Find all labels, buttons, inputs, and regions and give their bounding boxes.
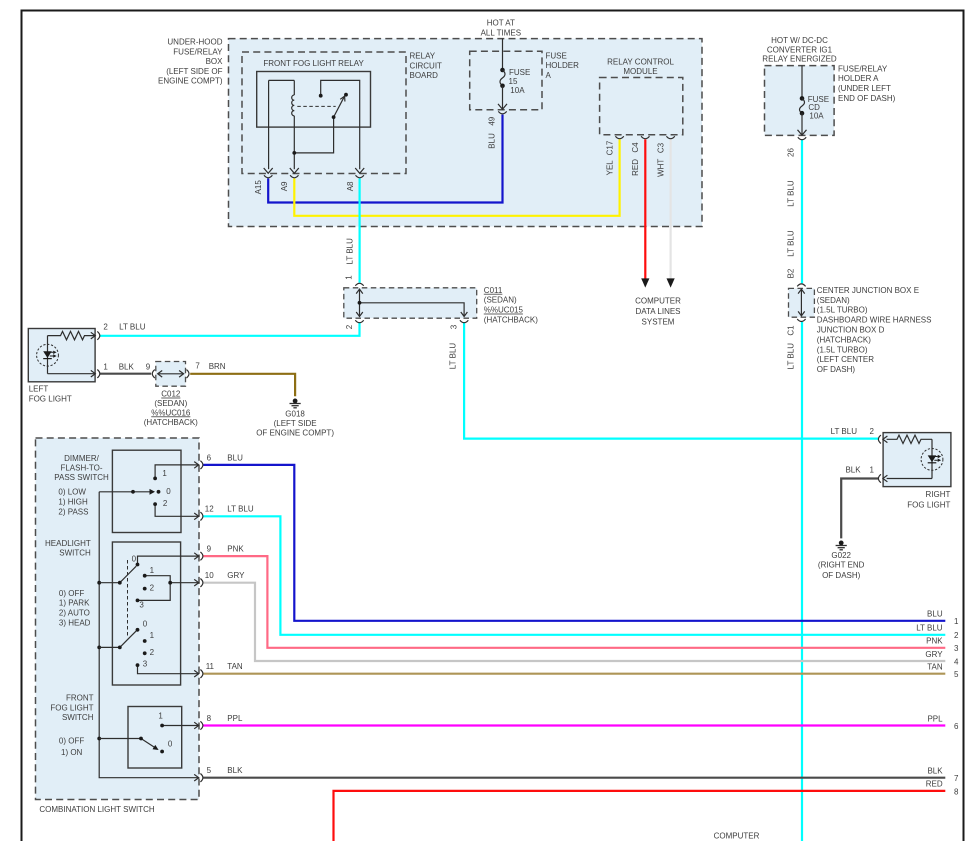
switch pin 12 arrow and cup <box>194 512 203 520</box>
svg-text:(UNDER LEFT: (UNDER LEFT <box>838 84 891 93</box>
relay pin A9 arrow and cup <box>290 168 299 178</box>
svg-text:(1.5L TURBO): (1.5L TURBO) <box>817 345 868 354</box>
svg-text:(LEFT CENTER: (LEFT CENTER <box>817 355 874 364</box>
svg-text:(SEDAN): (SEDAN) <box>154 399 187 408</box>
svg-text:HOLDER: HOLDER <box>546 61 580 70</box>
bus junction node headlight 1 <box>97 581 101 585</box>
label COMBINATION LIGHT SWITCH <box>39 805 154 814</box>
label headlight section 2 contact numbers <box>143 619 155 668</box>
fog switch pivot node <box>139 737 143 741</box>
svg-text:PPL: PPL <box>227 714 243 723</box>
svg-text:7: 7 <box>954 774 959 783</box>
headlight section 1 output junction node <box>168 581 172 585</box>
wire PPL switch pin 8 to right edge circuit 6 <box>203 724 945 726</box>
svg-text:C011: C011 <box>484 286 503 295</box>
label pins A15 A9 A8 <box>254 180 355 195</box>
svg-text:CONVERTER IG1: CONVERTER IG1 <box>767 45 833 54</box>
svg-text:1: 1 <box>158 711 163 720</box>
label COMPUTER (bottom, cut off) <box>714 832 760 841</box>
label headlight section 1 contact numbers <box>132 555 155 610</box>
svg-text:B2: B2 <box>787 268 796 278</box>
dimmer blade arrowhead <box>150 489 156 495</box>
svg-text:3: 3 <box>139 601 144 610</box>
label FUSE 15 10A <box>509 68 531 95</box>
switch pin 6 arrow and cup <box>194 461 203 469</box>
svg-text:(LEFT SIDE: (LEFT SIDE <box>274 419 317 428</box>
svg-text:FUSE: FUSE <box>546 51 567 60</box>
label right edge circuit 7 BLK <box>927 767 959 784</box>
label COMPUTER DATA LINES SYSTEM <box>635 297 681 327</box>
svg-text:PASS SWITCH: PASS SWITCH <box>54 473 109 482</box>
svg-text:G022: G022 <box>831 551 851 560</box>
label RELAY CIRCUIT BOARD <box>410 52 443 81</box>
svg-text:3: 3 <box>954 644 959 653</box>
svg-text:BOX: BOX <box>206 57 224 66</box>
wire BLU switch pin 6 to right edge circuit 1 <box>203 465 945 621</box>
svg-text:LT BLU: LT BLU <box>119 322 146 331</box>
label FUSE HOLDER A <box>546 51 580 80</box>
svg-text:2: 2 <box>870 427 875 436</box>
svg-text:5: 5 <box>954 670 959 679</box>
svg-text:COMPUTER: COMPUTER <box>635 297 681 306</box>
svg-text:YEL: YEL <box>605 160 614 176</box>
svg-text:LT BLU: LT BLU <box>449 343 458 370</box>
svg-text:8: 8 <box>954 787 959 796</box>
label pin 49 BLU <box>487 116 496 148</box>
svg-text:9: 9 <box>207 545 212 554</box>
svg-text:LT BLU: LT BLU <box>787 180 796 207</box>
svg-text:BOARD: BOARD <box>410 71 439 80</box>
svg-text:DATA LINES: DATA LINES <box>635 307 680 316</box>
label right edge circuit 1 BLU <box>927 610 959 627</box>
label FRONT FOG LIGHT SWITCH <box>50 694 93 722</box>
svg-text:LT BLU: LT BLU <box>345 238 354 265</box>
svg-text:FUSE/RELAY: FUSE/RELAY <box>173 47 223 56</box>
svg-text:BLK: BLK <box>927 767 943 776</box>
svg-text:FOG LIGHT: FOG LIGHT <box>29 394 72 403</box>
svg-text:BLK: BLK <box>845 465 861 474</box>
label C011 connector block <box>484 286 538 325</box>
svg-text:C1: C1 <box>787 325 796 336</box>
headlight section 1 contact 1 node <box>143 574 147 578</box>
label right edge circuit 8 RED <box>926 780 959 797</box>
left fog light pin 1 arrow and cup <box>91 370 100 378</box>
svg-text:6: 6 <box>954 722 959 731</box>
svg-text:1: 1 <box>870 465 875 474</box>
wire WHT module C3 to computer data lines <box>667 139 675 287</box>
svg-text:0: 0 <box>166 487 171 496</box>
fuse 15 10A <box>498 68 507 110</box>
under-hood fuse/relay box <box>229 39 703 227</box>
label FUSE/RELAY HOLDER A (UNDER LEFT END OF DASH) <box>838 64 896 103</box>
svg-text:1: 1 <box>150 631 155 640</box>
svg-text:2) PASS: 2) PASS <box>58 508 88 517</box>
wire BLK switch pin 5 to right edge circuit 7 <box>203 777 945 779</box>
right fog light pin 2 arrow and cup <box>878 435 887 443</box>
wire LT BLU C011 pin 3 to right fog light pin 2 <box>464 322 879 439</box>
svg-text:A8: A8 <box>346 181 355 191</box>
label switch pin 9 PNK <box>207 545 245 554</box>
svg-text:11: 11 <box>206 662 215 671</box>
svg-text:FOG LIGHT: FOG LIGHT <box>907 500 950 509</box>
svg-text:OF DASH): OF DASH) <box>817 365 856 374</box>
svg-text:GRY: GRY <box>925 650 943 659</box>
label right edge circuit 5 TAN <box>927 662 959 679</box>
svg-text:26: 26 <box>787 148 796 157</box>
svg-text:FOG LIGHT: FOG LIGHT <box>50 703 93 712</box>
svg-text:1: 1 <box>345 275 354 280</box>
svg-text:TAN: TAN <box>927 662 943 671</box>
svg-text:1: 1 <box>162 469 167 478</box>
svg-text:BRN: BRN <box>209 362 226 371</box>
left fog light pin 2 arrow and cup <box>91 331 100 339</box>
label FUSE CD 10A <box>808 95 829 120</box>
label FRONT FOG LIGHT RELAY <box>263 59 364 68</box>
fuse 15A feed wire from HOT AT ALL TIMES <box>502 39 504 70</box>
label right edge circuit 3 PNK <box>926 637 959 654</box>
svg-text:1: 1 <box>150 566 155 575</box>
left fog light box <box>28 329 95 382</box>
svg-text:PNK: PNK <box>926 637 943 646</box>
svg-text:SWITCH: SWITCH <box>59 549 91 558</box>
label dimmer positions <box>58 488 88 517</box>
svg-text:BLK: BLK <box>227 766 243 775</box>
svg-text:TAN: TAN <box>227 662 243 671</box>
svg-text:(HATCHBACK): (HATCHBACK) <box>817 335 871 344</box>
headlight section 1 contact 2 node <box>143 587 147 591</box>
label fog switch positions <box>59 737 84 757</box>
dimmer switch internal contacts <box>99 465 199 516</box>
svg-text:SYSTEM: SYSTEM <box>642 317 675 326</box>
svg-text:(1.5L TURBO): (1.5L TURBO) <box>817 306 868 315</box>
label dimmer contact numbers <box>162 469 171 508</box>
svg-text:FLASH-TO-: FLASH-TO- <box>60 463 102 472</box>
svg-text:%%UC016: %%UC016 <box>151 408 191 417</box>
svg-text:C4: C4 <box>631 142 640 153</box>
svg-text:2: 2 <box>345 324 354 329</box>
svg-text:C17: C17 <box>605 140 614 155</box>
label HEADLIGHT SWITCH <box>45 539 91 558</box>
left fog light bulb LED symbol <box>43 351 56 359</box>
svg-text:(SEDAN): (SEDAN) <box>817 296 850 305</box>
svg-text:4: 4 <box>954 658 959 667</box>
combination switch common bus <box>99 492 199 778</box>
label switch pin 8 PPL <box>207 714 243 723</box>
svg-text:0) OFF: 0) OFF <box>59 589 84 598</box>
svg-text:(HATCHBACK): (HATCHBACK) <box>144 418 198 427</box>
right fog light internal resistor and bulb <box>887 435 943 478</box>
svg-text:0: 0 <box>132 555 137 564</box>
svg-text:HOLDER A: HOLDER A <box>838 74 879 83</box>
label LT BLU below C011 pin 3 <box>449 343 458 370</box>
headlight section 1 contact 0 node <box>136 563 140 567</box>
wire LT BLU switch pin 12 to right edge circuit 2 <box>203 516 945 635</box>
connector C011 internal pass-through <box>356 289 467 316</box>
wire BLK right fog light pin 1 to ground G022 <box>841 479 879 539</box>
label RIGHT FOG LIGHT <box>907 490 950 510</box>
svg-text:C3: C3 <box>656 142 665 153</box>
headlight section 1 pivot node <box>118 581 122 585</box>
connector C012 box <box>156 362 186 387</box>
label pin C3 WHT <box>656 142 665 177</box>
wire PNK switch pin 9 to right edge circuit 3 <box>203 556 945 648</box>
svg-text:6: 6 <box>207 453 212 462</box>
C011 pin 3 cup <box>460 320 468 323</box>
right fog light pin 1 arrow and cup <box>878 474 887 482</box>
fog switch blade arrowhead <box>153 745 159 750</box>
label HOT AT ALL TIMES <box>481 19 521 38</box>
svg-text:1) PARK: 1) PARK <box>59 599 90 608</box>
wire RED from bottom edge to right edge circuit 8 <box>334 791 946 841</box>
label switch pin 12 LT BLU <box>205 505 254 514</box>
svg-text:BLK: BLK <box>119 362 135 371</box>
svg-text:CENTER JUNCTION BOX E: CENTER JUNCTION BOX E <box>817 286 919 295</box>
svg-text:BLU: BLU <box>227 453 243 462</box>
label right fog light pin 2 LT BLU <box>831 427 875 436</box>
headlight section 1 contact 3 node <box>136 599 140 603</box>
svg-text:(HATCHBACK): (HATCHBACK) <box>484 316 538 325</box>
fuse/relay holder A (right) box <box>765 66 835 136</box>
junction box pin C1 cup <box>797 319 805 322</box>
svg-text:FRONT: FRONT <box>66 694 94 703</box>
svg-text:A15: A15 <box>254 180 263 195</box>
svg-text:HEADLIGHT: HEADLIGHT <box>45 539 91 548</box>
svg-text:2: 2 <box>150 584 155 593</box>
svg-text:C012: C012 <box>161 390 181 399</box>
headlight switch section 2 contacts <box>99 631 199 674</box>
headlight switch section 1 contacts <box>99 556 199 636</box>
connector C012 internal pass-through <box>158 371 184 378</box>
dimmer/flash-to-pass switch box <box>112 450 181 532</box>
wire BLK left fog light pin 1 to C012 pin 9 <box>100 373 151 375</box>
svg-text:UNDER-HOOD: UNDER-HOOD <box>167 38 222 47</box>
switch pin 10 arrow and cup <box>194 579 203 587</box>
label switch pin 11 TAN <box>206 662 243 671</box>
svg-text:1: 1 <box>103 362 108 371</box>
front fog light relay internal circuit <box>269 80 360 169</box>
svg-text:RIGHT: RIGHT <box>926 490 951 499</box>
relay control module pin C4 cup <box>641 136 649 139</box>
svg-text:OF ENGINE COMPT): OF ENGINE COMPT) <box>256 429 334 438</box>
label right fog light pin 1 BLK <box>845 465 874 474</box>
ground G018 <box>290 399 301 408</box>
label G018 ground <box>256 410 334 438</box>
label pin C17 YEL <box>605 140 614 175</box>
svg-text:OF DASH): OF DASH) <box>822 571 861 580</box>
C011 branch node <box>358 301 362 305</box>
wire BRN C012 pin 7 to ground G018 <box>190 374 295 396</box>
svg-text:3: 3 <box>143 659 148 668</box>
svg-text:2: 2 <box>150 648 155 657</box>
label right edge circuit 6 PPL <box>927 714 959 731</box>
dimmer contact 2 node <box>153 502 157 506</box>
fuse holder A box <box>470 51 542 109</box>
svg-text:10A: 10A <box>510 86 525 95</box>
svg-text:10: 10 <box>205 571 214 580</box>
wire GRY switch pin 10 to right edge circuit 4 <box>203 583 945 661</box>
fog switch contact 1 node <box>160 724 164 728</box>
label UNDER-HOOD FUSE/RELAY BOX <box>158 38 223 86</box>
svg-text:RELAY CONTROL: RELAY CONTROL <box>607 57 674 66</box>
bus junction node fog switch <box>97 737 101 741</box>
svg-text:A9: A9 <box>280 181 289 191</box>
svg-text:3) HEAD: 3) HEAD <box>59 618 91 627</box>
switch pin 11 arrow and cup <box>194 670 203 678</box>
svg-text:2: 2 <box>954 631 959 640</box>
wire LT BLU fuse CD pin 26 down to junction box B2 <box>801 140 803 283</box>
dimmer contact 0 node <box>157 490 161 494</box>
fog switch contact 0 node <box>160 750 164 754</box>
svg-text:LT BLU: LT BLU <box>227 505 254 514</box>
svg-text:1: 1 <box>954 617 959 626</box>
svg-text:BLU: BLU <box>487 133 496 149</box>
svg-text:FUSE/RELAY: FUSE/RELAY <box>838 64 888 73</box>
center junction box internal pass-through <box>798 289 805 316</box>
svg-text:G018: G018 <box>285 410 305 419</box>
svg-text:(LEFT SIDE OF: (LEFT SIDE OF <box>166 67 222 76</box>
svg-text:COMBINATION LIGHT SWITCH: COMBINATION LIGHT SWITCH <box>39 805 154 814</box>
wire LT BLU C011 pin 2 to left fog light pin 2 <box>100 322 360 336</box>
svg-text:8: 8 <box>207 714 212 723</box>
svg-text:DIMMER/: DIMMER/ <box>64 454 99 463</box>
relay movable contact node <box>332 115 336 119</box>
headlight switch box <box>112 542 180 685</box>
label G022 ground <box>818 551 865 580</box>
svg-text:LT BLU: LT BLU <box>787 343 796 370</box>
svg-text:RED: RED <box>926 780 943 789</box>
label left fog light pin 1 BLK 9 <box>103 362 150 371</box>
label LEFT FOG LIGHT <box>29 385 72 404</box>
svg-text:DASHBOARD WIRE HARNESS: DASHBOARD WIRE HARNESS <box>817 316 932 325</box>
svg-text:GRY: GRY <box>227 571 245 580</box>
svg-text:0: 0 <box>168 740 173 749</box>
label switch pin 10 GRY <box>205 571 245 580</box>
left fog light internal resistor and bulb <box>37 331 95 373</box>
front fog light switch box <box>128 707 182 769</box>
svg-text:PNK: PNK <box>227 545 244 554</box>
relay control module pin C3 cup <box>666 136 674 139</box>
svg-text:BLU: BLU <box>927 610 943 619</box>
svg-text:CIRCUIT: CIRCUIT <box>410 61 443 70</box>
svg-text:10A: 10A <box>809 111 824 120</box>
ground G022 <box>836 541 847 550</box>
connector cup at fuse CD output pin 26 <box>798 137 806 140</box>
right fog light bulb LED symbol <box>928 455 941 463</box>
svg-text:JUNCTION BOX D: JUNCTION BOX D <box>817 326 885 335</box>
junction box pin B2 cup <box>797 284 805 287</box>
label headlight positions <box>59 589 91 627</box>
relay pin A15 arrow and cup <box>264 168 273 178</box>
label left fog light pin 2 LT BLU <box>103 322 145 331</box>
wire LT BLU junction box C1 down off page <box>801 322 803 841</box>
label right edge circuit 4 GRY <box>925 650 959 667</box>
svg-text:LT BLU: LT BLU <box>916 624 943 633</box>
switch pin 5 arrow and cup <box>194 774 203 782</box>
svg-text:(RIGHT END: (RIGHT END <box>818 561 865 570</box>
label switch pin 6 BLU <box>207 453 243 462</box>
svg-text:LT BLU: LT BLU <box>787 230 796 257</box>
svg-text:0: 0 <box>143 619 148 628</box>
right fog light box <box>883 433 951 487</box>
headlight section 2 contact 2 node <box>143 651 147 655</box>
label pin 26 and LT BLU column <box>787 148 796 370</box>
svg-text:15: 15 <box>509 77 518 86</box>
svg-text:(SEDAN): (SEDAN) <box>484 296 517 305</box>
C011 pin 2 cup <box>355 320 363 323</box>
svg-text:2) AUTO: 2) AUTO <box>59 609 90 618</box>
headlight section 2 pivot node <box>118 646 122 650</box>
headlight section 2 contact 3 node <box>136 663 140 667</box>
svg-text:PPL: PPL <box>927 714 943 723</box>
svg-text:5: 5 <box>207 766 212 775</box>
headlight section 2 contact 0 node <box>136 628 140 632</box>
relay fixed contact node <box>319 94 323 98</box>
svg-text:RELAY ENERGIZED: RELAY ENERGIZED <box>762 54 837 63</box>
svg-text:FRONT FOG LIGHT RELAY: FRONT FOG LIGHT RELAY <box>263 59 364 68</box>
label fog switch contact numbers <box>158 711 173 748</box>
svg-text:LEFT: LEFT <box>29 385 49 394</box>
svg-text:LT BLU: LT BLU <box>831 427 858 436</box>
relay coil junction node <box>292 151 296 155</box>
svg-text:RELAY: RELAY <box>410 52 436 61</box>
relay blade target node <box>344 93 348 97</box>
combination light switch box <box>36 438 200 800</box>
dimmer contact 1 node <box>153 477 157 481</box>
svg-text:WHT: WHT <box>656 159 665 177</box>
label DIMMER/FLASH-TO-PASS SWITCH <box>54 454 109 482</box>
relay control module pin C17 cup <box>615 136 623 139</box>
svg-text:COMPUTER: COMPUTER <box>714 832 760 841</box>
relay control module U2 box <box>600 78 683 135</box>
svg-text:ENGINE COMPT): ENGINE COMPT) <box>158 77 223 86</box>
wire TAN switch pin 11 to right edge circuit 5 <box>203 673 945 675</box>
connector C011 box <box>344 288 477 318</box>
label pin C4 RED <box>631 142 640 176</box>
svg-text:0) LOW: 0) LOW <box>58 488 86 497</box>
C011 pin 1 cup <box>355 283 363 286</box>
fuse CD feed stub <box>801 66 803 99</box>
label C012 connector block <box>144 390 198 427</box>
C012 pin 7 cup <box>187 370 190 378</box>
label HOT W/ DC-DC CONVERTER IG1 RELAY ENERGIZED <box>762 36 837 63</box>
label switch pin 5 BLK <box>207 766 243 775</box>
dimmer pivot node <box>131 490 135 494</box>
front fog light switch internal contacts <box>99 726 199 749</box>
svg-text:HOT AT: HOT AT <box>487 19 515 28</box>
wire BLU fuse49 to relay A15 <box>268 115 502 203</box>
svg-text:A: A <box>546 71 552 80</box>
svg-text:SWITCH: SWITCH <box>62 713 94 722</box>
svg-text:0) OFF: 0) OFF <box>59 737 84 746</box>
headlight section 2 contact 1 node <box>143 639 147 643</box>
svg-text:49: 49 <box>487 116 496 125</box>
svg-text:MODULE: MODULE <box>623 67 657 76</box>
svg-text:1) HIGH: 1) HIGH <box>58 498 88 507</box>
label RELAY CONTROL MODULE <box>607 57 674 76</box>
bus junction node headlight 2 <box>97 646 101 650</box>
svg-text:%%UC015: %%UC015 <box>484 306 524 315</box>
svg-text:1) ON: 1) ON <box>61 748 83 757</box>
svg-text:END OF DASH): END OF DASH) <box>838 94 896 103</box>
wire RED module C4 to computer data lines <box>641 139 649 287</box>
label C011 pins 1 2 3 <box>345 275 459 330</box>
svg-text:ALL TIMES: ALL TIMES <box>481 29 521 38</box>
relay pin A8 arrow and cup <box>355 168 364 178</box>
svg-text:9: 9 <box>146 362 151 371</box>
svg-text:7: 7 <box>195 362 200 371</box>
fuse CD 10A <box>798 96 807 135</box>
label CENTER JUNCTION BOX E block <box>817 286 932 374</box>
